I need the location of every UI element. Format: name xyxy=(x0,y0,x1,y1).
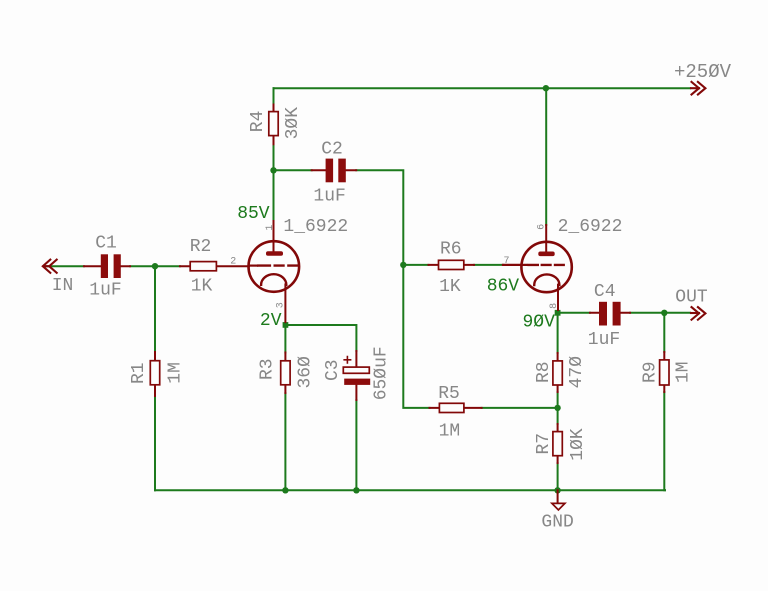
svg-text:R6: R6 xyxy=(440,240,462,260)
junction node on +250V rail xyxy=(543,85,549,91)
junction node at GND xyxy=(554,487,560,493)
resistor R9 xyxy=(660,352,669,392)
port +250V arrow xyxy=(691,82,705,95)
wire 2V node to C3 xyxy=(288,325,356,351)
wire R4 bottom to C2 node xyxy=(273,144,275,170)
tube U1 1_6922 xyxy=(248,221,299,322)
svg-text:1M: 1M xyxy=(673,361,693,383)
wire IN port to C1 xyxy=(46,265,84,267)
wire C3 to bottom rail xyxy=(355,400,357,490)
svg-text:7: 7 xyxy=(503,256,509,267)
svg-text:1uF: 1uF xyxy=(588,330,620,350)
wire junction to R2 xyxy=(155,265,180,267)
svg-text:R8: R8 xyxy=(534,361,554,383)
svg-text:C4: C4 xyxy=(594,282,616,302)
svg-text:1ØK: 1ØK xyxy=(568,428,588,461)
svg-text:1uF: 1uF xyxy=(89,281,121,301)
svg-text:GND: GND xyxy=(541,513,573,533)
wire vertical x403 down to R5 row xyxy=(403,265,429,408)
resistor R4 xyxy=(269,105,278,145)
svg-text:1K: 1K xyxy=(191,277,213,297)
ground GND symbol xyxy=(552,490,565,510)
svg-text:65ØuF: 65ØuF xyxy=(372,346,392,400)
wire C2 node to tube1 anode xyxy=(273,170,275,221)
wire R8 to R7 junction xyxy=(557,392,559,424)
svg-text:R4: R4 xyxy=(248,111,268,133)
svg-text:2: 2 xyxy=(230,257,236,268)
resistor R2 xyxy=(180,262,249,271)
svg-text:8: 8 xyxy=(549,303,560,309)
junction node at C4/OUT/R9 xyxy=(661,310,667,316)
wire R9 to bottom rail xyxy=(663,392,666,490)
wire 2V node down to R3 xyxy=(284,328,286,353)
svg-text:OUT: OUT xyxy=(675,287,708,307)
wire OUT junction down to R9 xyxy=(663,313,665,352)
junction node at R3/bottom rail xyxy=(282,487,288,493)
wire +250V rail to tube2 anode xyxy=(545,88,547,225)
svg-text:R5: R5 xyxy=(438,384,460,404)
tube U2 2_6922 xyxy=(503,225,572,310)
wire top rail xyxy=(274,87,691,89)
junction node at R6/R5 branch xyxy=(400,262,406,268)
wire C2 to vertical x403 xyxy=(356,170,403,265)
junction node at R5/R8/R7 xyxy=(554,405,560,411)
node 2V square xyxy=(283,322,289,328)
wire R6 to tube2 grid pin xyxy=(474,264,503,266)
svg-text:86V: 86V xyxy=(487,276,520,296)
wire C4 to OUT xyxy=(630,312,690,314)
svg-text:36Ø: 36Ø xyxy=(296,356,316,389)
svg-text:1K: 1K xyxy=(439,277,461,297)
svg-text:2_6922: 2_6922 xyxy=(558,217,623,237)
svg-text:47Ø: 47Ø xyxy=(567,356,587,389)
node 90V square xyxy=(555,310,561,316)
svg-text:IN: IN xyxy=(52,276,74,296)
port OUT arrow xyxy=(691,307,705,320)
svg-text:1M: 1M xyxy=(439,422,461,442)
wire R3 to bottom rail xyxy=(284,393,286,490)
svg-text:85V: 85V xyxy=(237,204,270,224)
svg-text:3: 3 xyxy=(275,302,286,308)
wire R1 to bottom rail xyxy=(154,396,156,490)
capacitor C3 (polarized) xyxy=(343,351,370,400)
svg-text:1uF: 1uF xyxy=(313,187,345,207)
wire bottom rail xyxy=(155,489,665,491)
svg-text:C2: C2 xyxy=(321,139,343,159)
svg-text:R9: R9 xyxy=(641,361,661,383)
resistor R6 xyxy=(429,260,475,269)
capacitor C2 xyxy=(312,159,357,183)
resistor R3 xyxy=(281,353,290,394)
junction node at C1/R1/R2 xyxy=(152,263,158,269)
svg-text:1_6922: 1_6922 xyxy=(283,217,348,237)
svg-text:9ØV: 9ØV xyxy=(522,313,555,333)
junction node at C3/bottom rail xyxy=(353,487,359,493)
wire junction down to R1 xyxy=(154,266,156,352)
svg-text:C3: C3 xyxy=(323,359,343,381)
svg-text:+25ØV: +25ØV xyxy=(674,61,732,83)
wire R6 node to R6 xyxy=(403,264,428,266)
svg-text:R3: R3 xyxy=(258,358,278,380)
resistor R5 xyxy=(430,403,482,412)
resistor R1 xyxy=(150,352,159,396)
resistor R8 xyxy=(553,353,562,392)
wire R7 to bottom rail xyxy=(557,463,559,490)
svg-text:6: 6 xyxy=(537,224,548,230)
svg-text:R2: R2 xyxy=(190,237,212,257)
wire tube2 cathode node to C4 xyxy=(560,312,590,314)
junction node at R4/C2/anode1 xyxy=(270,167,276,173)
port IN arrow xyxy=(43,260,57,273)
svg-text:2V: 2V xyxy=(260,311,282,331)
resistor R7 xyxy=(553,424,562,463)
svg-text:3ØK: 3ØK xyxy=(283,107,303,140)
capacitor C1 xyxy=(84,254,130,278)
svg-text:1: 1 xyxy=(265,225,276,231)
wire C2 node to C2 xyxy=(274,169,312,171)
svg-text:C1: C1 xyxy=(95,234,117,254)
svg-text:1M: 1M xyxy=(166,362,186,384)
wire R5 to R8 junction xyxy=(482,407,558,409)
svg-text:R1: R1 xyxy=(129,362,149,384)
wire R4 top vertical xyxy=(273,88,275,104)
capacitor C4 xyxy=(590,302,630,326)
wire cathode node down to R8 xyxy=(557,315,559,353)
wire C1 to junction xyxy=(130,265,155,267)
svg-text:R7: R7 xyxy=(534,433,554,455)
